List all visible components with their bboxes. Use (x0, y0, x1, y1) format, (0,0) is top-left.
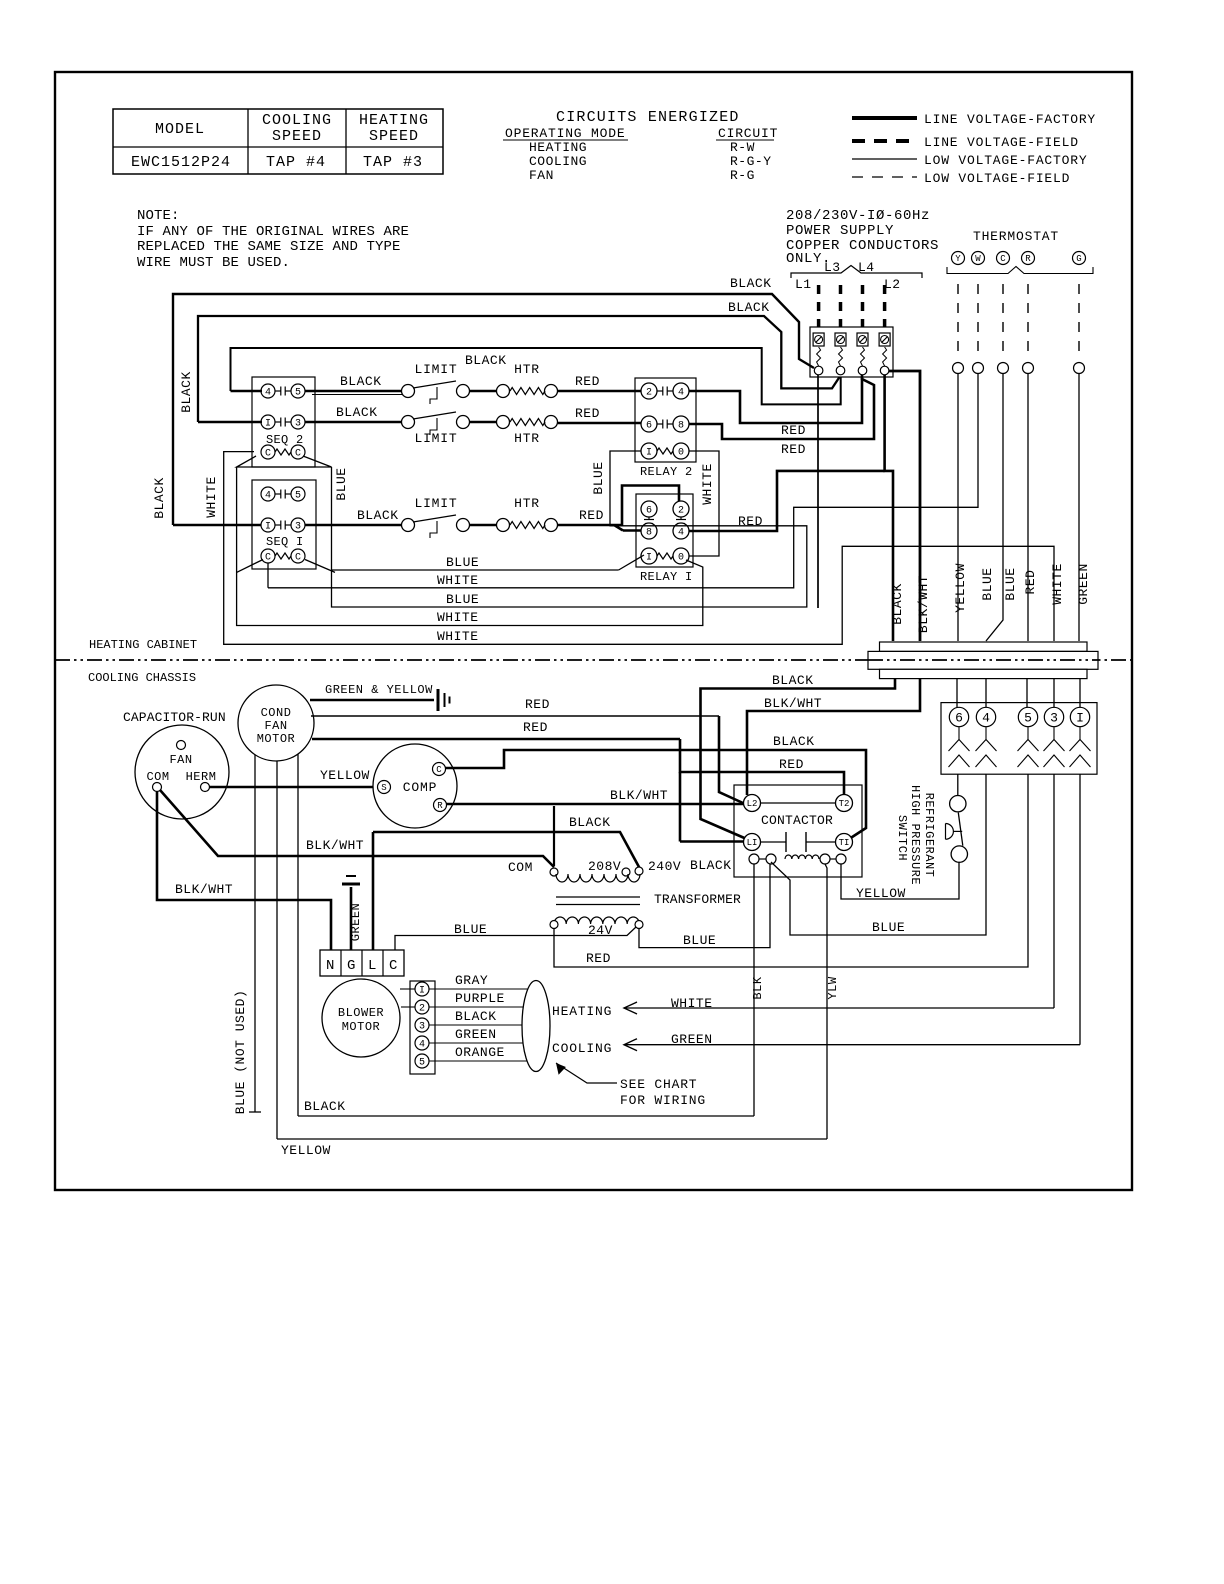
svg-text:BLUE: BLUE (334, 467, 349, 500)
svg-text:HTR: HTR (514, 431, 540, 446)
svg-text:5: 5 (1024, 711, 1032, 726)
svg-text:WHITE: WHITE (671, 996, 713, 1011)
svg-text:BLUE: BLUE (980, 567, 995, 600)
svg-text:FAN: FAN (169, 753, 192, 767)
svg-text:RED: RED (738, 514, 763, 529)
svg-text:RED: RED (1023, 570, 1038, 595)
svg-text:R-G: R-G (730, 168, 755, 183)
svg-text:C: C (389, 958, 398, 974)
svg-text:BLACK: BLACK (773, 734, 815, 749)
svg-text:GREEN & YELLOW: GREEN & YELLOW (325, 683, 433, 697)
svg-text:R: R (437, 801, 443, 811)
svg-text:BLACK: BLACK (455, 1009, 497, 1024)
svg-text:RED: RED (579, 508, 604, 523)
svg-text:RED: RED (781, 423, 806, 438)
svg-text:3: 3 (1050, 711, 1058, 726)
svg-text:WHITE: WHITE (1050, 563, 1065, 605)
svg-text:L2: L2 (884, 277, 901, 292)
svg-text:BLACK: BLACK (179, 371, 194, 413)
svg-text:YELLOW: YELLOW (281, 1143, 331, 1158)
svg-text:BLK/WHT: BLK/WHT (306, 838, 364, 853)
svg-text:G: G (347, 958, 356, 974)
svg-text:I: I (265, 419, 271, 430)
svg-text:WHITE: WHITE (437, 610, 479, 625)
svg-text:POWER SUPPLY: POWER SUPPLY (786, 223, 894, 239)
svg-text:BLACK: BLACK (728, 300, 770, 315)
svg-text:PURPLE: PURPLE (455, 991, 505, 1006)
svg-text:0: 0 (678, 553, 684, 564)
svg-text:RELAY I: RELAY I (640, 570, 693, 584)
svg-text:I: I (646, 553, 652, 564)
svg-text:BLK/WHT: BLK/WHT (175, 882, 233, 897)
svg-text:BLK: BLK (751, 976, 765, 999)
svg-text:4: 4 (678, 388, 684, 399)
svg-text:G: G (1076, 254, 1081, 264)
svg-text:T2: T2 (839, 799, 850, 809)
svg-text:WIRE MUST BE USED.: WIRE MUST BE USED. (137, 255, 290, 271)
svg-text:I: I (419, 986, 425, 997)
svg-text:COOLING CHASSIS: COOLING CHASSIS (88, 671, 196, 685)
svg-text:COMP: COMP (403, 780, 437, 795)
svg-text:RELAY 2: RELAY 2 (640, 465, 693, 479)
svg-text:L1: L1 (795, 277, 812, 292)
svg-text:2: 2 (678, 506, 684, 517)
svg-text:GREEN: GREEN (1076, 563, 1091, 605)
svg-text:5: 5 (295, 491, 301, 502)
svg-text:I: I (265, 522, 271, 533)
svg-text:RED: RED (575, 406, 600, 421)
svg-text:BLACK: BLACK (340, 374, 382, 389)
svg-text:W: W (975, 254, 981, 264)
svg-text:N: N (326, 958, 335, 974)
svg-text:R-W: R-W (730, 140, 755, 155)
svg-text:HTR: HTR (514, 362, 540, 377)
svg-text:IF ANY OF THE ORIGINAL WIRES A: IF ANY OF THE ORIGINAL WIRES ARE (137, 224, 409, 240)
svg-text:LIMIT: LIMIT (414, 496, 457, 511)
svg-text:COM: COM (146, 770, 169, 784)
svg-text:6: 6 (955, 711, 963, 726)
svg-text:HEATING: HEATING (359, 112, 429, 129)
svg-text:ORANGE: ORANGE (455, 1045, 505, 1060)
svg-text:C: C (295, 449, 301, 460)
svg-text:C: C (295, 553, 301, 564)
svg-text:C: C (265, 553, 271, 564)
svg-text:EWC1512P24: EWC1512P24 (131, 154, 231, 171)
svg-text:BLACK: BLACK (304, 1099, 346, 1114)
svg-text:COND: COND (261, 706, 292, 720)
svg-text:SWITCH: SWITCH (895, 815, 909, 861)
svg-text:BLACK: BLACK (336, 405, 378, 420)
svg-text:4: 4 (982, 711, 990, 726)
svg-text:SEE CHART: SEE CHART (620, 1077, 697, 1092)
svg-text:SPEED: SPEED (272, 128, 322, 145)
svg-text:C: C (265, 449, 271, 460)
svg-text:BLACK: BLACK (772, 673, 814, 688)
svg-text:MODEL: MODEL (155, 121, 205, 138)
svg-text:8: 8 (678, 421, 684, 432)
svg-text:COOLING: COOLING (529, 154, 587, 169)
svg-text:BLUE: BLUE (591, 461, 606, 494)
svg-text:LINE VOLTAGE-FIELD: LINE VOLTAGE-FIELD (924, 135, 1079, 150)
svg-text:BLACK: BLACK (152, 477, 167, 519)
svg-text:BLUE: BLUE (1003, 567, 1018, 600)
svg-text:BLK/WHT: BLK/WHT (764, 696, 822, 711)
svg-text:YELLOW: YELLOW (953, 563, 968, 613)
svg-text:CIRCUITS ENERGIZED: CIRCUITS ENERGIZED (556, 109, 740, 126)
svg-text:208V: 208V (588, 859, 621, 874)
svg-text:BLUE: BLUE (683, 933, 716, 948)
svg-text:208/230V-IØ-60Hz: 208/230V-IØ-60Hz (786, 208, 930, 224)
svg-text:WHITE: WHITE (437, 573, 479, 588)
svg-text:YLW: YLW (826, 976, 840, 999)
svg-text:5: 5 (295, 388, 301, 399)
svg-text:TAP #4: TAP #4 (266, 154, 326, 171)
svg-text:LIMIT: LIMIT (414, 431, 457, 446)
svg-text:5: 5 (419, 1058, 425, 1069)
svg-text:THERMOSTAT: THERMOSTAT (973, 229, 1059, 244)
svg-text:BLUE: BLUE (446, 592, 479, 607)
svg-text:0: 0 (678, 448, 684, 459)
svg-text:RED: RED (586, 951, 611, 966)
svg-text:GREEN: GREEN (671, 1032, 713, 1047)
svg-text:BLACK: BLACK (569, 815, 611, 830)
svg-text:3: 3 (295, 522, 301, 533)
svg-text:BLACK: BLACK (357, 508, 399, 523)
svg-text:HEATING CABINET: HEATING CABINET (89, 638, 197, 652)
svg-text:MOTOR: MOTOR (342, 1020, 381, 1034)
svg-text:BLK/WHT: BLK/WHT (610, 788, 668, 803)
svg-text:WHITE: WHITE (700, 463, 715, 505)
svg-text:S: S (381, 783, 386, 793)
svg-text:6: 6 (646, 506, 652, 517)
svg-text:LINE VOLTAGE-FACTORY: LINE VOLTAGE-FACTORY (924, 112, 1096, 127)
svg-text:BLUE: BLUE (454, 922, 487, 937)
svg-text:TAP #3: TAP #3 (363, 154, 423, 171)
svg-text:HIGH PRESSURE: HIGH PRESSURE (908, 785, 922, 885)
svg-text:FOR WIRING: FOR WIRING (620, 1093, 706, 1108)
svg-text:SPEED: SPEED (369, 128, 419, 145)
svg-text:L2: L2 (747, 799, 758, 809)
svg-text:TRANSFORMER: TRANSFORMER (654, 892, 741, 907)
svg-text:6: 6 (646, 421, 652, 432)
svg-text:GRAY: GRAY (455, 973, 488, 988)
svg-text:BLACK: BLACK (730, 276, 772, 291)
svg-text:3: 3 (419, 1022, 425, 1033)
svg-text:240V: 240V (648, 859, 681, 874)
svg-text:YELLOW: YELLOW (320, 768, 370, 783)
svg-text:RED: RED (525, 697, 550, 712)
svg-text:HEATING: HEATING (529, 140, 587, 155)
svg-text:4: 4 (265, 388, 271, 399)
svg-text:WHITE: WHITE (437, 629, 479, 644)
svg-text:COOLING: COOLING (262, 112, 332, 129)
svg-text:8: 8 (646, 528, 652, 539)
svg-text:FAN: FAN (264, 719, 287, 733)
svg-text:RED: RED (575, 374, 600, 389)
svg-text:TI: TI (839, 838, 850, 848)
svg-text:BLUE (NOT USED): BLUE (NOT USED) (233, 990, 248, 1115)
svg-text:R: R (1025, 254, 1031, 264)
svg-text:4: 4 (265, 491, 271, 502)
svg-text:COOLING: COOLING (552, 1041, 612, 1056)
svg-text:2: 2 (419, 1004, 425, 1015)
svg-text:4: 4 (419, 1040, 425, 1051)
svg-text:GREEN: GREEN (455, 1027, 497, 1042)
svg-text:LIMIT: LIMIT (414, 362, 457, 377)
svg-text:C: C (436, 765, 442, 775)
svg-text:RED: RED (523, 720, 548, 735)
svg-text:I: I (1076, 711, 1084, 726)
svg-text:REPLACED THE SAME SIZE AND TYP: REPLACED THE SAME SIZE AND TYPE (137, 239, 401, 255)
svg-text:HTR: HTR (514, 496, 540, 511)
svg-text:BLK/WHT: BLK/WHT (916, 575, 931, 633)
svg-text:FAN: FAN (529, 168, 554, 183)
svg-text:GREEN: GREEN (349, 903, 363, 942)
svg-text:HERM: HERM (186, 770, 217, 784)
svg-text:R-G-Y: R-G-Y (730, 154, 772, 169)
svg-text:BLACK: BLACK (690, 858, 732, 873)
svg-text:BLUE: BLUE (446, 555, 479, 570)
svg-text:2: 2 (646, 388, 652, 399)
svg-text:LOW VOLTAGE-FIELD: LOW VOLTAGE-FIELD (924, 171, 1070, 186)
svg-text:MOTOR: MOTOR (257, 732, 296, 746)
svg-text:4: 4 (678, 528, 684, 539)
svg-text:BLACK: BLACK (890, 583, 905, 625)
svg-text:I: I (646, 448, 652, 459)
svg-text:Y: Y (955, 254, 961, 264)
svg-text:COM: COM (508, 860, 533, 875)
svg-text:BLOWER: BLOWER (338, 1006, 384, 1020)
svg-text:REFRIGERANT: REFRIGERANT (922, 793, 936, 878)
svg-text:NOTE:: NOTE: (137, 208, 180, 224)
svg-text:CIRCUIT: CIRCUIT (718, 126, 778, 141)
svg-text:LI: LI (747, 838, 758, 848)
svg-text:RED: RED (781, 442, 806, 457)
svg-text:LOW VOLTAGE-FACTORY: LOW VOLTAGE-FACTORY (924, 153, 1087, 168)
svg-text:SEQ I: SEQ I (266, 535, 304, 549)
svg-text:CAPACITOR-RUN: CAPACITOR-RUN (123, 710, 226, 725)
svg-text:C: C (1000, 254, 1006, 264)
svg-text:OPERATING MODE: OPERATING MODE (505, 126, 625, 141)
svg-text:CONTACTOR: CONTACTOR (761, 813, 833, 828)
svg-text:WHITE: WHITE (204, 476, 219, 518)
svg-text:BLACK: BLACK (465, 353, 507, 368)
svg-text:HEATING: HEATING (552, 1004, 612, 1019)
svg-text:L: L (368, 958, 377, 974)
svg-text:BLUE: BLUE (872, 920, 905, 935)
svg-text:RED: RED (779, 757, 804, 772)
svg-text:3: 3 (295, 419, 301, 430)
svg-text:YELLOW: YELLOW (856, 886, 906, 901)
